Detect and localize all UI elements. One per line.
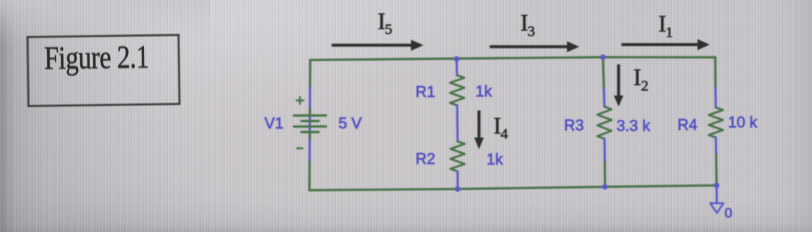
wire between R1 and R2: [456, 105, 459, 141]
resistor R3 lead bottom: [603, 139, 605, 161]
label I3: [521, 11, 536, 40]
resistor R3 lead top: [603, 89, 606, 107]
label I5: [378, 9, 393, 38]
svg-text:10 k: 10 k: [728, 115, 758, 132]
resistor R1 lead top: [456, 59, 459, 76]
battery V1 lead: [309, 88, 312, 161]
junction node R1 top: [454, 56, 460, 62]
svg-text:V1: V1: [265, 115, 284, 132]
svg-text:2: 2: [641, 78, 649, 94]
figure caption box: [27, 34, 181, 107]
resistor R1 body: [450, 75, 464, 105]
junction node R3 bottom: [602, 184, 608, 190]
label I2: [634, 65, 649, 94]
svg-text:R2: R2: [416, 151, 436, 168]
left darker gradient edge: [0, 0, 210, 232]
resistor R4 lead bottom: [715, 138, 717, 154]
battery V1 pin top: [309, 109, 311, 116]
svg-text:5 V: 5 V: [339, 116, 363, 133]
resistor R2 body: [451, 141, 465, 171]
wire right upper: [714, 57, 717, 88]
current arrow I1: [622, 39, 710, 50]
junction node ground corner: [714, 183, 720, 189]
svg-text:4: 4: [501, 127, 509, 143]
battery minus sign: [297, 147, 303, 149]
battery plus sign: [296, 97, 303, 104]
ground stub: [715, 185, 717, 203]
resistor R2 lead bottom: [457, 171, 459, 189]
wire top: [310, 57, 715, 60]
resistor R4 lead top: [714, 88, 716, 108]
wire left lower: [308, 159, 311, 190]
svg-text:R4: R4: [678, 117, 698, 134]
current arrow I5: [332, 40, 424, 51]
ground symbol: [710, 203, 723, 213]
svg-text:3: 3: [528, 24, 536, 40]
current arrow I2: [614, 64, 624, 106]
wire right lower: [715, 153, 718, 186]
svg-text:3.3 k: 3.3 k: [617, 118, 651, 135]
resistor R4 body: [709, 108, 723, 138]
junction node R3 top: [600, 54, 606, 60]
label I1: [659, 12, 674, 41]
battery V1 pin bottom: [309, 132, 311, 139]
wire R3 bottom segment: [604, 160, 607, 187]
resistor R3 body: [597, 107, 611, 139]
current arrow I3: [490, 41, 580, 52]
wire bottom: [309, 185, 716, 190]
wire R3 top segment: [602, 57, 605, 89]
battery V1 plates: [294, 115, 326, 132]
junction node R2 bottom: [455, 186, 461, 192]
label I4: [494, 113, 509, 142]
svg-text:0: 0: [725, 205, 733, 221]
svg-text:5: 5: [385, 22, 393, 38]
current arrow I4: [474, 111, 484, 150]
svg-text:1k: 1k: [487, 152, 504, 169]
svg-text:R1: R1: [416, 84, 436, 101]
wire left upper: [309, 60, 312, 89]
svg-text:1k: 1k: [476, 84, 493, 101]
svg-text:R3: R3: [564, 118, 584, 135]
svg-text:1: 1: [666, 25, 674, 41]
